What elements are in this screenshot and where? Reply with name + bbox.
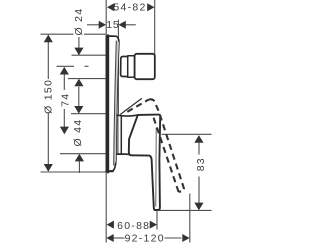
svg-text:92-120: 92-120 <box>125 232 165 244</box>
svg-text:74: 74 <box>59 93 71 107</box>
svg-text:60-88: 60-88 <box>117 220 150 232</box>
svg-text:54-82: 54-82 <box>113 2 146 14</box>
svg-text:83: 83 <box>195 157 207 171</box>
svg-text:Ø 24: Ø 24 <box>73 8 85 36</box>
svg-text:Ø 150: Ø 150 <box>42 79 54 114</box>
svg-text:Ø 44: Ø 44 <box>72 119 84 147</box>
svg-text:15: 15 <box>106 19 119 31</box>
